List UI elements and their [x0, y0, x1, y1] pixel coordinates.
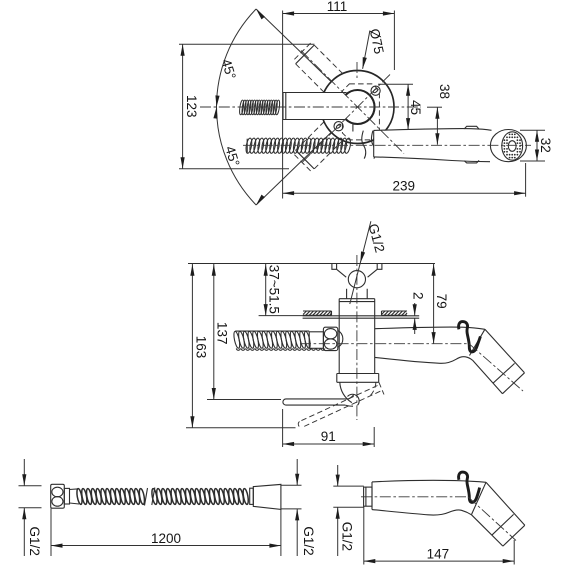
- hose cone fitting: [253, 484, 281, 509]
- dim 79: [432, 264, 450, 344]
- front view: faucet on deck: [186, 221, 525, 447]
- mounting tabs: [332, 264, 346, 278]
- hose lines to coil: [70, 489, 80, 504]
- top inlet circle G1/2: [348, 271, 365, 288]
- dim 111: [283, 0, 395, 199]
- dome dashed raised: [368, 382, 376, 397]
- svg-text:32: 32: [538, 138, 553, 153]
- hose spring left run: [76, 488, 146, 505]
- dim 137: [207, 264, 281, 400]
- sprayer body: [372, 480, 486, 515]
- top view: faucet plan: [179, 0, 553, 206]
- hose break marks: [145, 488, 155, 506]
- swivel arc 45+45deg: [217, 9, 257, 205]
- spout body plan: [374, 129, 492, 162]
- inlet boss rectangle: [283, 93, 347, 120]
- dim 1200: [51, 508, 281, 556]
- arc arrowheads: [213, 8, 264, 207]
- dim 163: [186, 264, 296, 428]
- sprayer head: [472, 482, 525, 546]
- valve body to spout joint: [352, 123, 354, 132]
- svg-text:137: 137: [214, 322, 229, 345]
- spout centerline: [243, 144, 531, 146]
- base plate 2mm: [303, 316, 420, 318]
- svg-text:1200: 1200: [151, 531, 181, 546]
- svg-text:37~51.5: 37~51.5: [267, 265, 282, 314]
- spray head rim: [490, 130, 526, 162]
- 45deg radial line lower: [256, 132, 331, 205]
- dim 239: [283, 163, 526, 197]
- phantom pipe rotated 45deg up: [294, 43, 343, 92]
- hose spring right run: [151, 488, 249, 505]
- neck: [347, 289, 368, 299]
- 45deg radial line upper: [256, 9, 331, 82]
- svg-text:G1/2: G1/2: [339, 522, 354, 551]
- deck slab hatched right: [382, 311, 408, 315]
- hand sprayer 147mm: [333, 465, 525, 565]
- dim 45: [378, 84, 423, 129]
- spray face: [502, 132, 523, 160]
- valve horizontal centerline: [200, 106, 421, 108]
- body column: [339, 299, 375, 374]
- hose collar right: [250, 488, 254, 504]
- screw upper-right: [371, 86, 380, 95]
- svg-text:147: 147: [427, 546, 450, 561]
- hose serrated bottom: [236, 348, 324, 350]
- valve core ring: [346, 90, 375, 124]
- dim 38: [427, 84, 452, 145]
- 45deg centerline lower pipe: [303, 75, 391, 163]
- phantom square flange: [342, 84, 379, 140]
- dim 32: [520, 130, 553, 161]
- svg-text:111: 111: [327, 0, 348, 14]
- clip lug bottom: [464, 160, 479, 163]
- lower thread end cap: [246, 139, 248, 153]
- hose ferrule: [309, 332, 323, 349]
- clip lug top: [464, 126, 479, 129]
- lower thread hose stub: [245, 138, 351, 154]
- hanging hook sprayer: [459, 472, 480, 502]
- hanging hook front: [459, 322, 481, 352]
- dim G1/2 hose left: [19, 459, 42, 556]
- dim G1/2 sprayer: [333, 465, 364, 556]
- dome and ball joint: [340, 382, 352, 402]
- sprayer inlet nozzle: [364, 487, 372, 506]
- svg-text:G1/2: G1/2: [27, 527, 42, 556]
- svg-text:45: 45: [408, 100, 423, 115]
- spout centerline front: [300, 343, 469, 345]
- spray center hole: [508, 141, 516, 152]
- dim 147: [364, 506, 514, 564]
- wall reference line: [188, 263, 435, 265]
- valve escutcheon circle dia 75: [321, 71, 394, 144]
- handle dashed raised: [298, 386, 380, 428]
- dim 91: [283, 409, 375, 447]
- bottom flange: [337, 374, 379, 383]
- svg-text:239: 239: [393, 179, 416, 194]
- dim dia75 leader: [361, 27, 387, 69]
- phantom pipe rotated 45deg down: [294, 122, 343, 171]
- svg-text:G1/2: G1/2: [301, 526, 316, 555]
- dim G1/2 leader top: [350, 221, 388, 304]
- hose nut: [323, 327, 342, 350]
- svg-text:163: 163: [193, 336, 208, 359]
- hose top outline: [235, 330, 309, 332]
- hose spring middle view: [233, 331, 312, 349]
- shower hose 1200mm: [19, 459, 317, 556]
- hose nut left: [51, 484, 65, 508]
- deck slab hatched left: [303, 311, 332, 315]
- body centerline: [356, 255, 358, 420]
- 45deg centerline upper pipe: [301, 51, 404, 154]
- dim 123: [179, 44, 315, 169]
- dim 2: [411, 292, 426, 334]
- handle solid: [283, 399, 349, 405]
- svg-text:123: 123: [184, 95, 199, 118]
- screw lower-left: [334, 122, 343, 131]
- sprayer centerline: [361, 496, 468, 498]
- svg-text:79: 79: [434, 294, 449, 309]
- svg-text:2: 2: [411, 292, 426, 300]
- short vertical centerline above valve: [356, 62, 358, 78]
- sprayer head attached: [470, 329, 525, 393]
- spout front view: [375, 327, 485, 329]
- dim G1/2 hose right: [281, 459, 316, 556]
- spray face dots: [504, 134, 521, 159]
- hose collar left: [64, 488, 69, 504]
- svg-text:91: 91: [321, 429, 336, 444]
- deck outline: [303, 311, 407, 315]
- svg-text:38: 38: [437, 84, 452, 99]
- dim 37~51.5: [259, 264, 303, 316]
- upper thread nipple: [239, 100, 280, 115]
